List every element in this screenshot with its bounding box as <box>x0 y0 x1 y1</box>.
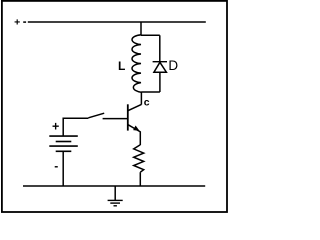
switch S1 lever <box>88 113 104 118</box>
wire diode branch bottom <box>159 72 161 92</box>
ground <box>114 186 116 200</box>
battery B1 plate long top <box>49 135 78 137</box>
wire resistor to bottom rail <box>139 172 141 186</box>
svg-text:+: + <box>52 119 59 133</box>
svg-text:-: - <box>54 159 58 173</box>
diode D cathode bar <box>153 61 167 63</box>
svg-text:+: + <box>14 17 20 29</box>
resistor R1 <box>134 145 144 172</box>
inductor L <box>132 35 141 92</box>
wire collector node <box>140 92 142 105</box>
wire bottom rail <box>23 185 205 187</box>
wire emitter to resistor <box>139 131 141 145</box>
battery B1 plate long <box>49 145 78 147</box>
wire top rail <box>28 21 206 23</box>
battery B1 bottom lead <box>62 151 64 186</box>
svg-text:D: D <box>168 58 178 73</box>
wire junction drop from top rail <box>140 22 142 36</box>
wire top of LD parallel <box>141 34 160 36</box>
label - (supply polarity) <box>23 21 26 23</box>
svg-text:L: L <box>118 59 125 73</box>
battery B1 plate short bottom <box>56 150 72 152</box>
border frame <box>2 1 227 212</box>
battery B1 top lead <box>63 118 88 136</box>
battery B1 plate short <box>56 141 72 143</box>
transistor Q1 base bar <box>127 104 129 130</box>
svg-text:c: c <box>144 97 150 109</box>
wire base (switch contact to base) <box>103 118 127 120</box>
diode D triangle <box>154 62 167 72</box>
transistor Q1 emitter lead <box>128 125 140 132</box>
transistor Q1 collector lead <box>128 104 141 110</box>
transistor Q1 emitter arrow <box>133 126 140 131</box>
wire diode branch top <box>159 35 161 61</box>
wire bottom of LD parallel <box>141 91 160 93</box>
